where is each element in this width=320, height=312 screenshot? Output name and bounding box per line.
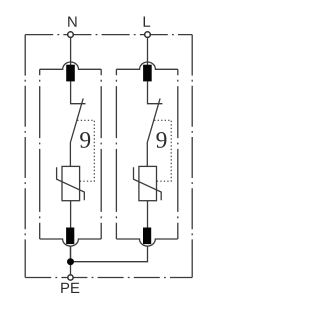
wire: bottom plug arc to PE junction (left) <box>70 246 72 262</box>
PE bus wire (junction to right branch) <box>71 246 148 262</box>
outer enclosure dash-dot border: right edge <box>191 35 193 278</box>
outer enclosure dash-dot border: bottom edge <box>25 277 192 279</box>
varistor body (left) <box>62 166 80 200</box>
module 1 (left, N) boundary: top edge with plug arc <box>40 62 101 69</box>
module 1 boundary: bottom edge with plug arc <box>40 239 101 246</box>
module 1 boundary: right dash-dot edge <box>100 69 102 239</box>
module 2 (right, L) boundary: top edge with plug arc <box>116 62 177 69</box>
outer enclosure dash-dot border: top edge <box>25 34 192 36</box>
terminal block top (left) <box>66 65 75 82</box>
terminal block top (right) <box>143 65 152 82</box>
varistor strike-through (right) <box>134 167 162 200</box>
module 2 boundary: left dash-dot edge <box>115 69 117 239</box>
wire L terminal to top terminal block <box>147 37 149 66</box>
thermal sense dotted link (right) <box>154 120 171 181</box>
theta mark (left) <box>80 132 90 148</box>
wire: top block to disconnector (right) <box>148 81 163 103</box>
module 2 boundary: right dash-dot edge <box>177 69 179 239</box>
module 2 boundary: bottom edge with plug arc <box>116 239 177 246</box>
theta mark (right) <box>156 132 166 148</box>
thermal sense dotted link (left) <box>77 120 94 181</box>
thermal disconnector blade (right) <box>147 98 160 166</box>
label N <box>68 17 76 27</box>
wire: varistor to bottom block (right) <box>147 201 149 228</box>
wire N terminal to top terminal block <box>70 37 72 66</box>
varistor body (right) <box>139 166 157 200</box>
label PE <box>61 283 69 293</box>
wire: top block to disconnector (left) <box>71 81 86 103</box>
wire PE junction to PE terminal <box>70 246 72 276</box>
label L <box>144 17 151 27</box>
terminal L <box>145 32 151 38</box>
outer enclosure dash-dot border: left edge <box>24 35 26 278</box>
module 1 boundary: left dash-dot edge <box>39 69 41 239</box>
terminal PE <box>68 275 73 280</box>
PE junction node <box>67 258 74 265</box>
thermal disconnector blade (left) <box>70 98 83 166</box>
terminal block bottom (left) <box>66 228 74 245</box>
terminal block bottom (right) <box>143 228 151 245</box>
varistor strike-through (left) <box>57 167 85 200</box>
wire: varistor to bottom block (left) <box>70 201 72 228</box>
terminal N <box>68 32 74 38</box>
